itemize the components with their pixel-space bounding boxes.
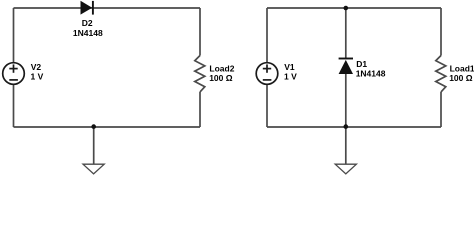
svg-text:1 V: 1 V xyxy=(284,71,297,81)
svg-text:Load2: Load2 xyxy=(209,64,234,74)
svg-text:D2: D2 xyxy=(82,18,93,28)
svg-text:1N4148: 1N4148 xyxy=(73,28,103,38)
svg-text:100 Ω: 100 Ω xyxy=(449,73,473,83)
svg-text:Load1: Load1 xyxy=(450,64,474,74)
svg-text:1 V: 1 V xyxy=(31,71,44,81)
svg-text:1N4148: 1N4148 xyxy=(356,69,386,79)
svg-text:D1: D1 xyxy=(356,59,367,69)
svg-text:100 Ω: 100 Ω xyxy=(209,73,233,83)
